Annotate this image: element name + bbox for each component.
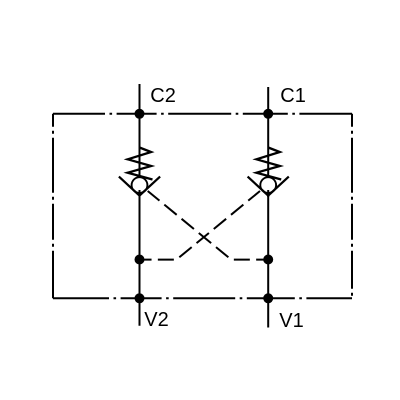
junction node C1 — [263, 109, 273, 119]
check valve CV2 ball (left) — [132, 177, 148, 193]
pilot line from node V1 to check valve 2 (dashed) — [148, 191, 269, 260]
junction node pilot tap left — [135, 255, 145, 265]
check valve CV2 stem stub — [139, 190, 141, 197]
svg-text:V1: V1 — [279, 310, 303, 332]
check valve CV1 ball (right) — [260, 177, 276, 193]
check valve CV2 seat (left) — [119, 177, 160, 196]
enclosure boundary right (dash-dot) — [351, 114, 353, 298]
check valve CV1 seat (right) — [248, 177, 289, 196]
check valve CV1 spring (right) — [256, 148, 281, 180]
enclosure boundary bottom (dash-dot) — [53, 297, 352, 299]
check valve CV1 stem stub — [267, 190, 269, 197]
svg-text:C1: C1 — [280, 85, 306, 107]
enclosure boundary top (dash-dot) — [53, 113, 352, 115]
enclosure boundary left (dash-dot) — [52, 114, 54, 298]
wire C2-V2 (left vertical line) — [139, 84, 141, 326]
check valve CV2 spring (left) — [128, 148, 153, 180]
junction node pilot tap right — [263, 255, 273, 265]
svg-text:C2: C2 — [150, 85, 176, 107]
pilot line from node V2 to check valve 1 (dashed) — [140, 191, 261, 260]
junction node V2 — [135, 293, 145, 303]
junction node C2 — [135, 109, 145, 119]
wire C1-V1 (right vertical line) — [267, 87, 269, 328]
junction node V1 — [263, 293, 273, 303]
svg-text:V2: V2 — [144, 309, 168, 331]
